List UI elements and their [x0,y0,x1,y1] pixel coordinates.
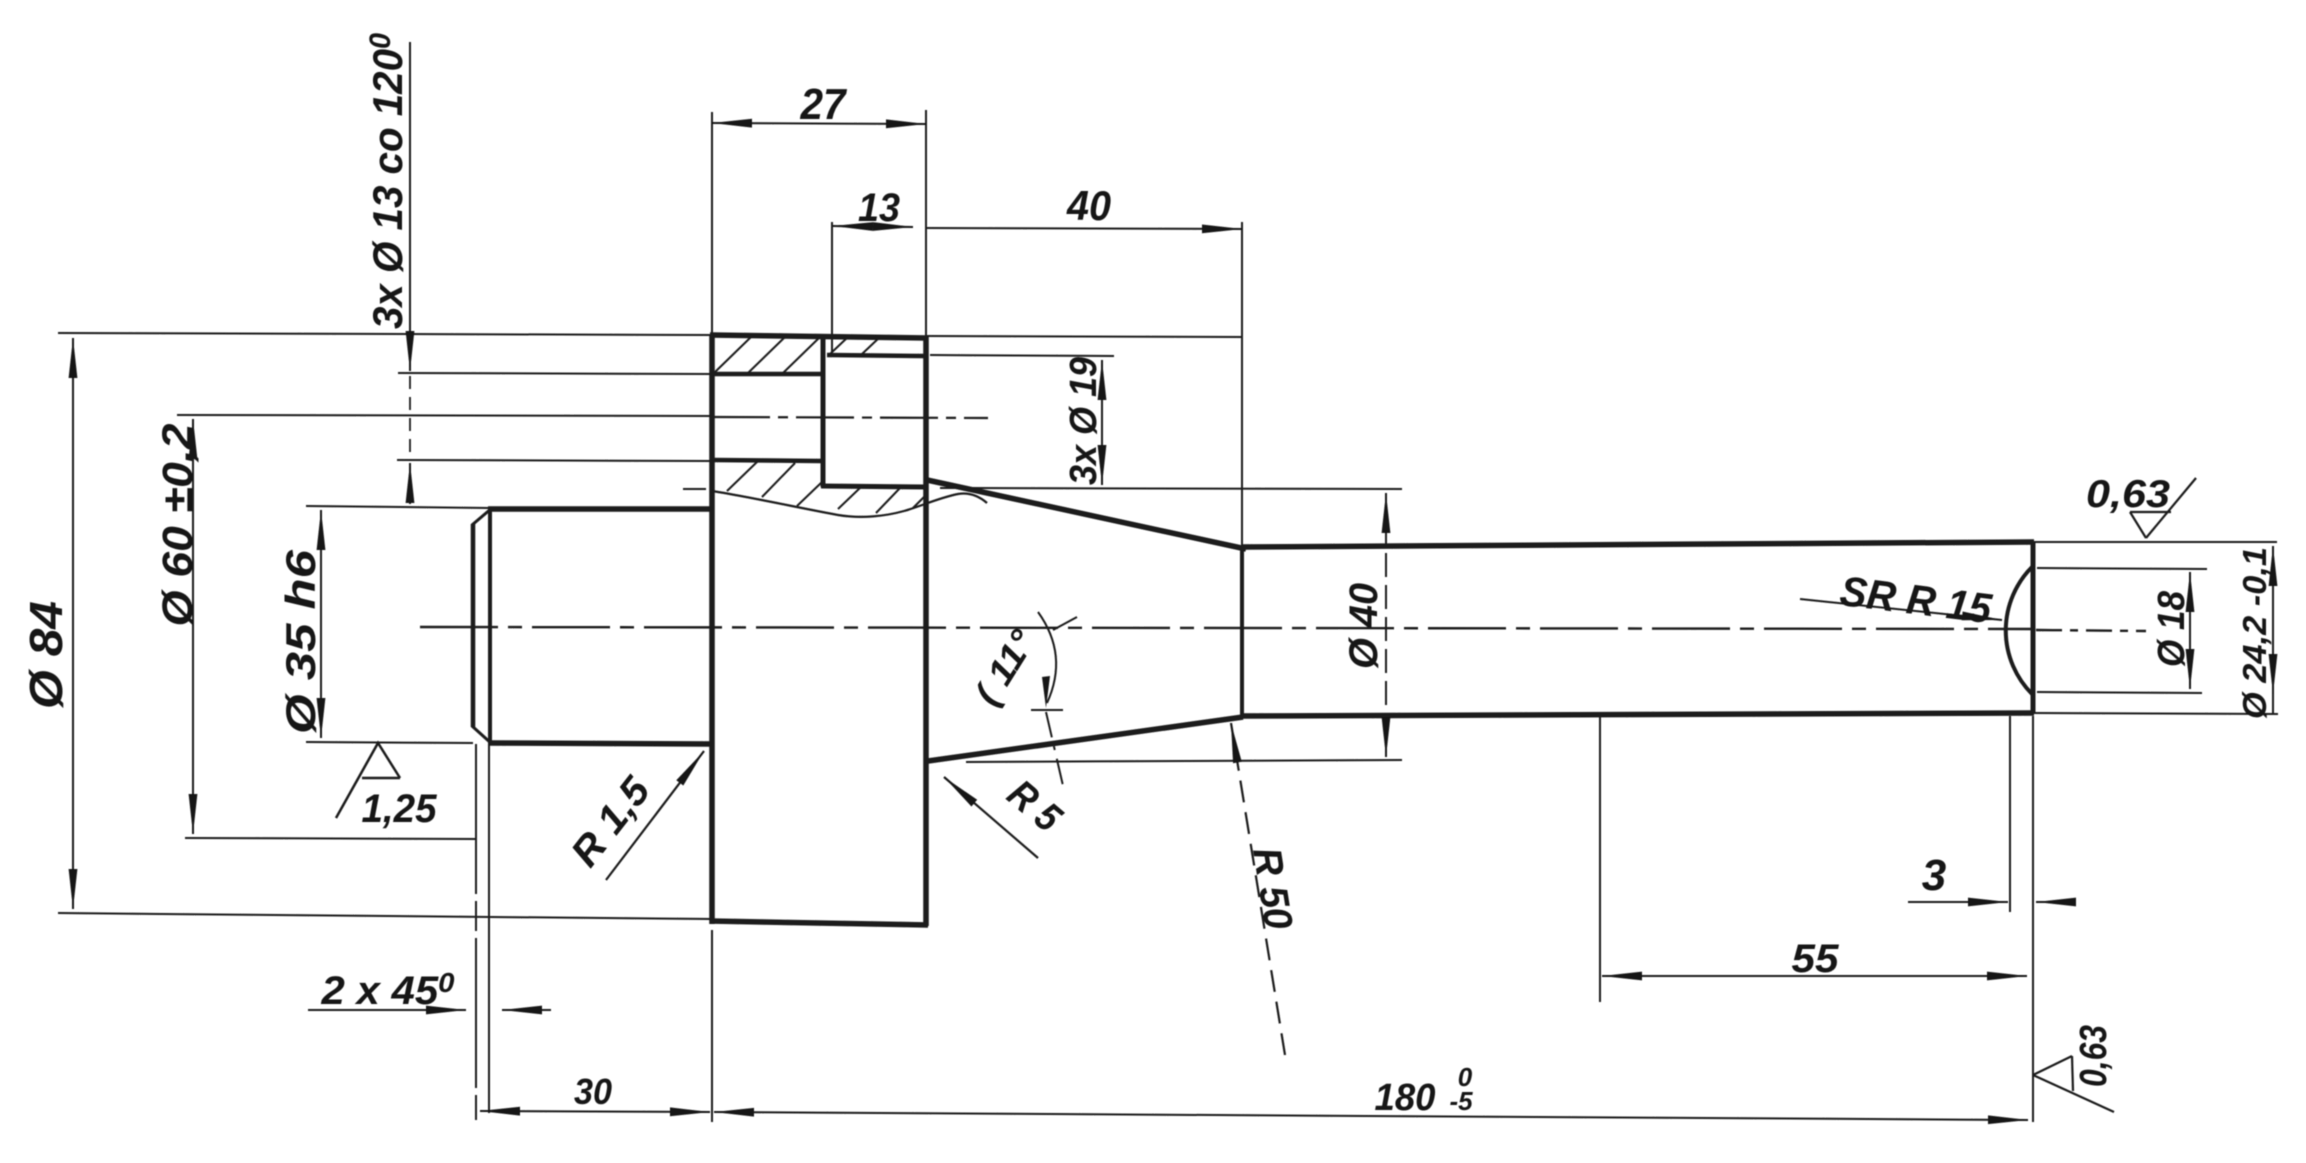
dimension O40 [1385,493,1387,546]
radius R1,5 leader [606,751,704,880]
flange O84 [709,334,715,924]
svg-text:Ø 84: Ø 84 [20,601,72,709]
radius R50 leader [1231,723,1285,1055]
svg-text:Ø 35 h6: Ø 35 h6 [277,549,324,734]
dimension 3x O13 on 120deg [398,373,712,374]
svg-text:40: 40 [1066,182,1111,229]
svg-text:3x Ø 19: 3x Ø 19 [1063,357,1105,485]
svg-text:27: 27 [800,80,848,129]
dimension O24,2 -0,1 [2272,546,2274,694]
spherical radius SR R15 leader [1800,599,2002,620]
surface finish 1,25 [336,743,400,818]
dimension 13 [831,222,833,352]
svg-text:13: 13 [858,186,900,230]
hatching flange section [714,337,751,373]
centerline main axis [420,627,2032,629]
straight shaft O40 [1242,542,2034,547]
dimension O84 [58,333,712,335]
dimension 55 [1599,716,1601,1002]
surface finish 0,63 (bottom, end face) [2033,1056,2114,1112]
cone taper 11deg [927,480,1246,549]
dimension 40 (taper length) [1241,222,1243,548]
dimension 30 [711,930,713,1122]
shaft outline: left cylinder O35 [471,524,476,727]
dimension 180 0/-5 [714,1112,2028,1120]
svg-text:55: 55 [1792,937,1840,981]
hub boss section [821,336,826,487]
spherical end SR15 [2006,567,2032,694]
svg-text:-5: -5 [1449,1086,1473,1116]
svg-text:R 5: R 5 [999,772,1070,841]
svg-text:R 1,5: R 1,5 [563,768,660,875]
svg-text:3: 3 [1922,851,1946,900]
svg-text:0,63: 0,63 [2073,1025,2115,1087]
svg-text:3x Ø 13 co 1200: 3x Ø 13 co 1200 [364,33,411,329]
bolt hole O13 section lines [712,372,822,377]
svg-text:Ø 18: Ø 18 [2151,590,2193,667]
break (wavy) line [683,488,706,490]
svg-text:Ø 40: Ø 40 [1342,583,1386,669]
bolt hole axis / O60 extension [177,415,712,416]
svg-text:180: 180 [1375,1077,1436,1119]
svg-text:0,63: 0,63 [2086,473,2170,516]
surface finish 0,63 (top) [2130,478,2196,538]
right end section lines [2033,541,2277,543]
svg-text:2 x 450: 2 x 450 [320,967,454,1013]
svg-text:Ø 24,2 -0,1: Ø 24,2 -0,1 [2236,547,2273,719]
svg-text:( 11°: ( 11° [966,622,1044,712]
dimension 3x O19 counterbore [930,355,1114,356]
dimension 3 [2009,716,2011,912]
svg-text:R 50: R 50 [1244,845,1300,933]
svg-text:30: 30 [574,1071,612,1112]
svg-text:Ø 60 ±0,2: Ø 60 ±0,2 [154,423,202,626]
dimension O60 +-0.2 (bolt circle) [185,838,477,839]
dimension 27 [711,112,713,334]
svg-text:SR R 15: SR R 15 [1837,567,1994,632]
angle (11deg) annotation [1038,612,1056,703]
radius R5 leader [944,777,1038,858]
svg-text:1,25: 1,25 [362,787,438,831]
dimension O18 [2037,568,2207,569]
dimension O35 h6 [306,506,489,508]
